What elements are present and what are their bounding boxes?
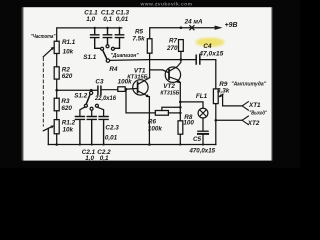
node: divider tap <box>55 89 58 92</box>
node: junction C1.2 on bus <box>106 27 108 29</box>
svg-text:R6: R6 <box>148 118 157 125</box>
wire: VT2 base from VT1 collector <box>150 70 169 73</box>
capacitor C1.1 <box>91 28 101 48</box>
capacitor C4 (electrolytic, series) <box>196 55 200 64</box>
node: R7 top <box>180 26 183 29</box>
wire: VT2 emitter down <box>179 83 181 121</box>
switch S1.1 pivot <box>106 59 109 62</box>
potentiometer R9 body <box>213 89 218 104</box>
svg-text:"Амплитуда": "Амплитуда" <box>231 82 266 88</box>
node: R6 wiper join <box>179 106 182 109</box>
node: VT2 collector node <box>180 58 183 61</box>
svg-text:0,01: 0,01 <box>116 16 129 23</box>
potentiometer R1.1 body <box>54 41 59 53</box>
svg-text:0,01: 0,01 <box>105 134 118 141</box>
capacitor C5 (electrolytic) <box>198 130 208 132</box>
switch S1.1 lever <box>103 50 107 59</box>
resistor R5 body <box>147 39 152 54</box>
svg-text:100: 100 <box>183 119 194 126</box>
wire: contact to C2.2 <box>91 110 93 116</box>
transistor VT2 <box>165 67 180 82</box>
node: S1.2 hang point <box>90 89 93 92</box>
wire: R2 to R3 with tap <box>56 79 58 98</box>
capacitor C1.2 <box>103 28 111 45</box>
node: C2.2 ground <box>91 143 93 145</box>
svg-text:7.5k: 7.5k <box>132 36 145 43</box>
svg-text:10k: 10k <box>63 49 74 56</box>
wire: contact to C2.3 <box>97 107 103 116</box>
wire: feedback branch down to R6 <box>126 89 155 113</box>
svg-text:+9В: +9В <box>225 22 238 29</box>
wire: R1.2 wiper to ground rail <box>47 128 49 144</box>
svg-text:R4: R4 <box>109 66 118 73</box>
svg-text:VT2: VT2 <box>163 83 175 90</box>
svg-text:24 мА: 24 мА <box>184 19 203 26</box>
node: C5 ground <box>202 143 204 145</box>
svg-text:КТ315Б: КТ315Б <box>160 90 179 96</box>
wire: R6 right end to R8 node <box>168 112 180 114</box>
svg-text:VT1: VT1 <box>134 68 146 75</box>
svg-text:"Выход": "Выход" <box>249 111 267 117</box>
letterbox bar right <box>273 0 300 168</box>
svg-text:C5: C5 <box>193 136 202 143</box>
+9V rail <box>150 28 216 39</box>
wire: R7 to VT2 collector node <box>180 51 182 59</box>
svg-text:КТ315Б: КТ315Б <box>127 75 148 81</box>
svg-text:S1.1: S1.1 <box>83 54 96 61</box>
svg-text:470,0x15: 470,0x15 <box>188 149 215 155</box>
svg-text:620: 620 <box>61 105 72 112</box>
wire: R9 wiper to XT1 <box>223 94 243 106</box>
resistor R2 body <box>56 54 58 67</box>
svg-text:22,0x16: 22,0x16 <box>94 96 117 102</box>
svg-text:S1.2: S1.2 <box>74 92 87 99</box>
svg-text:47,0x15: 47,0x15 <box>198 51 224 57</box>
terminal XT2 <box>242 116 248 125</box>
wire: S1.1 common to VT2 collector node and C4 <box>110 59 196 62</box>
node: R1.2 bottom on ground rail <box>55 143 58 146</box>
resistor R6 body (trimmer) <box>155 111 168 116</box>
svg-text:"Диапазон": "Диапазон" <box>111 53 139 59</box>
wire: to XT2 <box>216 119 242 121</box>
switch S1.1 contacts <box>101 47 104 50</box>
wire: C4 to R9 top <box>201 60 216 89</box>
capacitor C2.1 <box>75 117 84 145</box>
wire: VT1 emitter down to ground rail <box>148 97 150 145</box>
switch S1.2 contacts <box>84 104 87 107</box>
wire: VT1 collector up to R5 / VT2 base <box>149 53 151 77</box>
node: R8 ground <box>179 143 181 145</box>
letterbox bar top <box>0 0 300 7</box>
capacitor C2.3 <box>99 117 108 145</box>
wiper arrow R1.1 <box>43 49 52 57</box>
node: XT2 branch <box>215 119 218 122</box>
lamp FL1 <box>198 108 208 118</box>
capacitor C2.2 <box>87 117 96 145</box>
wire: R9 bottom to ground rail <box>215 104 217 145</box>
letterbox bar left <box>0 0 22 168</box>
current break mark 24 mA <box>190 26 194 30</box>
resistor R4 body <box>118 87 125 92</box>
svg-text:XT2: XT2 <box>247 120 260 127</box>
node: R6/R8 join <box>179 112 182 115</box>
wire: contact to C2.1 <box>80 107 85 116</box>
svg-text:3,3k: 3,3k <box>217 88 230 95</box>
switch S1.2 pivot <box>90 91 93 94</box>
wire: R4 to VT1 base <box>125 87 137 90</box>
wire: feedback bus top-left (R1.1 top to C1 caps) <box>57 28 122 41</box>
paper background <box>0 0 300 168</box>
svg-text:R5: R5 <box>135 29 144 36</box>
svg-text:FL1: FL1 <box>196 93 208 100</box>
node: R4 output / feedback branch <box>125 88 128 91</box>
svg-text:XT1: XT1 <box>248 102 261 109</box>
resistor R7 body <box>179 40 184 52</box>
svg-text:270: 270 <box>166 45 178 52</box>
node: VT1 emitter ground <box>148 143 151 146</box>
resistor R8 body <box>178 121 183 134</box>
capacitor C3 (series, horizontal) <box>98 86 101 95</box>
svg-text:R1.1: R1.1 <box>62 39 76 46</box>
svg-text:620: 620 <box>62 73 73 80</box>
gang dashed link R1.1/R1.2 <box>42 58 44 127</box>
wire: R8 to ground rail <box>179 134 181 144</box>
resistor R3 body <box>54 98 59 111</box>
R9 wiper arrow <box>220 94 223 96</box>
+9V arrow head <box>215 26 223 30</box>
svg-text:0,1: 0,1 <box>103 16 112 23</box>
node: junction C1.3 on bus <box>118 27 120 29</box>
wire: to lamp FL1 <box>180 102 203 108</box>
wiper arrow R1.2 <box>43 127 52 131</box>
wire: lamp to C5 <box>202 118 204 131</box>
potentiometer R1.2 body <box>56 111 58 120</box>
transistor VT1 <box>133 80 148 95</box>
svg-text:1,0: 1,0 <box>86 16 95 23</box>
yellow highlight around C4 label <box>196 38 225 47</box>
node: FL1 branch <box>179 101 182 104</box>
svg-text:R7: R7 <box>169 38 178 45</box>
ground rail (bottom bus) <box>48 144 216 146</box>
svg-text:100k: 100k <box>148 125 163 132</box>
svg-text:R3: R3 <box>61 98 70 105</box>
svg-text:www.zvukovik.com: www.zvukovik.com <box>140 1 193 7</box>
terminal XT1 <box>242 102 248 111</box>
svg-text:10k: 10k <box>63 127 74 134</box>
svg-text:C2.3: C2.3 <box>105 124 119 131</box>
svg-text:C3: C3 <box>95 78 104 85</box>
svg-text:"Частота": "Частота" <box>31 34 56 40</box>
node: junction C1.1 on bus <box>94 27 96 29</box>
svg-text:R1.2: R1.2 <box>62 119 76 126</box>
node: C2.3 ground <box>103 143 105 145</box>
svg-text:C4: C4 <box>203 43 212 50</box>
R6 wiper to VT2 emitter line <box>162 107 180 110</box>
switch S1.2 lever <box>86 94 90 104</box>
wire: C5 to ground rail <box>202 135 204 145</box>
capacitor C1.3 <box>115 28 124 48</box>
wire: tap to S1.2 and C3 <box>57 89 98 91</box>
wire: C3 to R4 <box>102 89 118 91</box>
letterbox bar bottom <box>0 161 300 168</box>
node: C2.1 ground <box>79 143 81 145</box>
